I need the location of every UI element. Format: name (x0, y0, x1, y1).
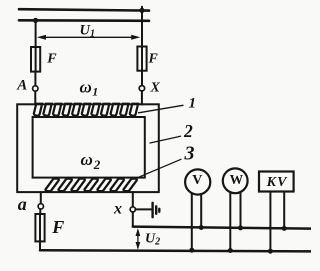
kilovoltmeter KV (box) (259, 172, 294, 192)
terminal X (circle) (139, 86, 144, 91)
transformer tank (outer rectangle) (17, 104, 159, 192)
ground (earth) symbol (153, 203, 160, 217)
fuse F (right) (137, 47, 146, 71)
svg-text:2: 2 (183, 121, 193, 141)
terminal a (circle) (38, 204, 43, 209)
wire: terminal x to ground (135, 208, 151, 210)
svg-text:V: V (192, 173, 202, 188)
wire: terminal a to fuse F (bottom) (39, 209, 41, 214)
terminal x (circle) (130, 207, 135, 212)
wire: V left lead to lower bus (191, 193, 193, 250)
fuse F (left) (31, 47, 40, 72)
callout line to 2 (core) (150, 136, 181, 143)
svg-text:W: W (230, 172, 244, 187)
svg-text:F: F (46, 52, 57, 67)
wire: bus 2 down to fuse F (left) (35, 20, 37, 47)
svg-text:A: A (16, 77, 27, 93)
junction on bus 2 (node to A branch) (33, 18, 38, 23)
junction on bus 1 (node to X branch) (139, 8, 144, 13)
svg-text:F: F (51, 217, 64, 237)
wire: KV right lead to upper bus (283, 192, 285, 229)
wire: V right lead to upper bus (200, 194, 202, 227)
wire: W right lead to upper bus (240, 193, 242, 228)
junction V left on lower bus (189, 248, 194, 253)
junction W right on upper bus (238, 225, 243, 230)
junction KV left on lower bus (268, 249, 273, 254)
junction W left on lower bus (228, 248, 233, 253)
winding w2 (secondary coil) (46, 179, 137, 192)
svg-text:x: x (113, 200, 122, 217)
callout line to 3 (winding w2) (140, 159, 182, 177)
wattmeter W (223, 168, 248, 193)
wire: W left lead to lower bus (229, 192, 231, 250)
voltage arrow U1 (double headed) (37, 35, 141, 40)
svg-text:a: a (18, 194, 27, 214)
wire: terminal A to winding w1 (34, 91, 36, 104)
junction KV right on upper bus (282, 226, 287, 231)
svg-text:F: F (148, 52, 159, 67)
junction V right on upper bus (199, 225, 204, 230)
wire: fuse to terminal X (141, 71, 143, 86)
core (inner rectangle) (33, 117, 145, 178)
svg-text:3: 3 (184, 142, 195, 164)
supply bus line 1 (top) (19, 9, 149, 10)
voltage arrow U2 (double headed, vertical) (136, 228, 141, 250)
measuring bus (lower, from a) (40, 250, 311, 251)
svg-text:X: X (150, 81, 161, 96)
terminal A (circle) (33, 86, 38, 91)
wire: terminal X to core top (141, 91, 143, 105)
winding w1 (primary coil) (34, 104, 138, 116)
voltmeter V (185, 169, 210, 194)
svg-text:KV: KV (266, 175, 289, 190)
wire: fuse to terminal A (34, 72, 36, 86)
callout line to 1 (winding w1) (139, 105, 184, 113)
wire: terminal x down and corner to upper measuring bus (133, 212, 137, 227)
wire: bus 1 down to fuse F (right) (141, 7, 143, 47)
wire: winding w2 left end down to terminal a (40, 192, 42, 204)
measuring bus (upper, from x) (133, 227, 311, 229)
wire: KV left lead to lower bus (269, 192, 271, 252)
wire: winding w2 right end down to terminal x (132, 192, 134, 207)
svg-text:1: 1 (189, 96, 197, 112)
supply bus line 2 (19, 19, 149, 22)
wire: fuse down and corner to lower measuring bus (40, 241, 44, 250)
fuse F (bottom) (35, 214, 44, 241)
